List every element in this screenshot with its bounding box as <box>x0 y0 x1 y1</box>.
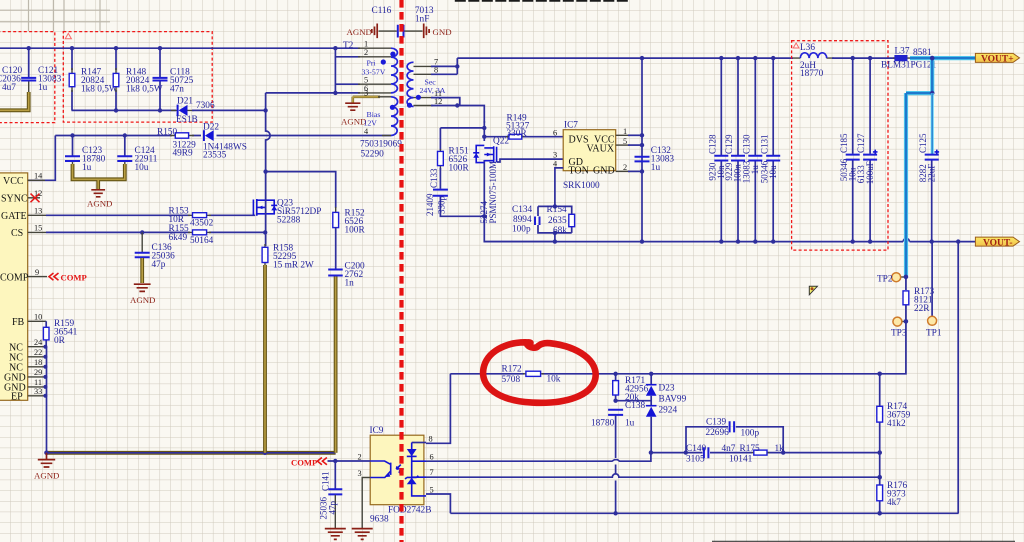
svg-text:C127: C127 <box>856 133 866 153</box>
ferrite bead L37 <box>881 47 937 71</box>
svg-text:68k: 68k <box>553 226 567 236</box>
svg-text:3: 3 <box>358 469 362 478</box>
svg-text:4u7: 4u7 <box>2 83 16 93</box>
pin SYNC 12 (no connect) <box>1 189 42 205</box>
ground AGND (bus) <box>34 453 59 481</box>
resistor R151 <box>438 128 485 174</box>
capacitor C128 <box>707 56 728 242</box>
primary winding coil <box>391 48 397 93</box>
capacitor C140 <box>686 444 736 465</box>
svg-text:D22: D22 <box>203 123 219 133</box>
svg-text:2: 2 <box>623 163 627 172</box>
resistor R159 <box>43 319 77 347</box>
black top edge line <box>455 0 629 2</box>
svg-text:BAV99: BAV99 <box>659 395 687 405</box>
svg-text:33: 33 <box>34 387 42 396</box>
node: D21 row joins drain vertical <box>263 108 267 112</box>
svg-text:COMP: COMP <box>61 273 87 283</box>
capacitor C118 <box>153 48 194 110</box>
pin 4 <box>382 135 391 137</box>
red dashed filter box (left, clipped) <box>0 32 55 123</box>
svg-text:330p: 330p <box>436 196 446 215</box>
wire: IC9 pin3 to ground <box>362 478 370 529</box>
svg-text:10u: 10u <box>135 163 149 173</box>
ground (C141) <box>325 529 346 540</box>
capacitor C123 <box>65 136 106 174</box>
svg-text:1k: 1k <box>775 444 785 454</box>
transistor Q23 SiR5712DP <box>253 199 321 226</box>
test point TP2 <box>877 273 908 285</box>
svg-text:41k2: 41k2 <box>887 419 906 429</box>
svg-text:SRK1000: SRK1000 <box>563 181 600 191</box>
svg-text:5: 5 <box>430 486 434 495</box>
resistor R158 <box>262 244 314 271</box>
svg-text:7306: 7306 <box>196 101 215 111</box>
svg-text:C138: C138 <box>625 401 645 411</box>
svg-text:100uF: 100uF <box>865 161 875 184</box>
svg-text:33-57V: 33-57V <box>362 68 386 77</box>
svg-text:52290: 52290 <box>361 150 385 160</box>
svg-text:23535: 23535 <box>203 151 227 161</box>
wire: pin bus down to AGND row <box>43 345 47 453</box>
svg-text:47p: 47p <box>328 501 338 515</box>
svg-text:21409: 21409 <box>425 193 435 216</box>
svg-text:SYNC: SYNC <box>1 194 28 205</box>
wire: primary top rail <box>0 47 360 49</box>
diode D22 1N4148WS <box>203 123 247 161</box>
svg-text:D23: D23 <box>659 384 675 394</box>
svg-text:6k49: 6k49 <box>169 233 188 243</box>
svg-text:3: 3 <box>553 151 557 160</box>
capacitor C138 <box>591 401 645 513</box>
svg-text:10: 10 <box>34 313 42 322</box>
svg-text:8994: 8994 <box>513 215 532 225</box>
svg-text:43502: 43502 <box>190 219 214 229</box>
capacitor C185 <box>839 58 860 242</box>
svg-text:Pri: Pri <box>367 59 377 68</box>
svg-text:C141: C141 <box>321 471 331 491</box>
port COMP (IC9) <box>291 458 370 468</box>
pin 6 <box>266 92 360 94</box>
wire: feedback row (R172 net) <box>450 373 879 375</box>
network C134 / R154 <box>512 204 575 241</box>
svg-text:VOUT+: VOUT+ <box>981 55 1014 65</box>
svg-text:D21: D21 <box>177 97 193 107</box>
svg-text:C129: C129 <box>724 134 734 154</box>
svg-text:FB: FB <box>12 317 25 328</box>
wire: rail hop over cyan <box>903 239 909 242</box>
capacitor C136 <box>135 232 175 283</box>
pins 7/8/11/12 <box>414 65 434 67</box>
capacitor C132 <box>635 146 675 173</box>
svg-text:R154: R154 <box>547 205 567 215</box>
svg-text:VAUX: VAUX <box>587 144 615 155</box>
resistor R150 <box>157 128 196 159</box>
port VOUT+ <box>975 53 1019 64</box>
resistor R171 <box>613 374 649 403</box>
pin 3 + AGND <box>353 97 380 103</box>
pins NC/GND/EP cluster <box>4 338 45 403</box>
ground GND (C116 right, sideways) <box>424 24 452 39</box>
svg-text:8: 8 <box>429 435 433 444</box>
svg-text:10141: 10141 <box>729 455 753 465</box>
capacitor C133 <box>425 168 485 216</box>
svg-text:R172: R172 <box>502 365 522 375</box>
svg-text:C185: C185 <box>839 133 849 153</box>
svg-text:24V, 3A: 24V, 3A <box>420 86 446 95</box>
svg-text:330R: 330R <box>507 129 528 139</box>
red dashed RC snubber box R147/R148/C118 <box>63 32 212 123</box>
svg-text:C134: C134 <box>512 205 532 215</box>
svg-text:100p: 100p <box>512 225 531 235</box>
svg-text:IC9: IC9 <box>370 426 384 436</box>
ground AGND (C136) <box>130 284 155 305</box>
resistor R155 <box>169 224 214 246</box>
node: bottom row junctions <box>114 108 118 112</box>
svg-text:18: 18 <box>34 358 42 367</box>
polarity dots primary <box>390 52 395 57</box>
resistor R172 <box>502 365 561 386</box>
capacitor C125 (polarized) <box>918 133 939 242</box>
pin CS 15 <box>11 224 46 240</box>
svg-text:18770: 18770 <box>800 69 824 79</box>
svg-text:4k7: 4k7 <box>887 498 901 508</box>
wire: VCC riser to bias row <box>28 136 56 181</box>
svg-text:AGND: AGND <box>347 27 372 37</box>
diode D21 ES1B <box>171 97 266 126</box>
svg-text:C133: C133 <box>429 168 439 188</box>
wire: right return vertical <box>957 242 959 514</box>
svg-text:2: 2 <box>364 48 368 57</box>
pin FB 10 <box>12 313 46 329</box>
svg-text:VCC: VCC <box>3 176 24 187</box>
svg-text:FOD2742B: FOD2742B <box>388 506 431 516</box>
svg-text:24: 24 <box>34 338 43 347</box>
resistor R152 <box>333 207 366 236</box>
svg-text:PSMN075-100M: PSMN075-100M <box>488 161 498 224</box>
svg-text:15: 15 <box>34 224 42 233</box>
wire: IC9 pin6 to row A (jog over C138 vertical) <box>426 453 651 462</box>
capacitor C120/C121 <box>0 48 62 93</box>
svg-text:TON: TON <box>569 166 589 177</box>
svg-text:4n7: 4n7 <box>722 444 736 454</box>
pin 5 <box>335 57 360 93</box>
svg-text:11: 11 <box>34 378 42 387</box>
svg-text:C139: C139 <box>706 418 726 428</box>
svg-text:DVS: DVS <box>569 135 589 146</box>
svg-text:1k8 0,5W: 1k8 0,5W <box>81 85 118 95</box>
wire: thin cyan to C125 <box>931 93 934 154</box>
wire: TON pin4 to R154/C134 <box>555 168 563 207</box>
resistor R175 <box>729 444 784 465</box>
svg-text:L37: L37 <box>895 47 910 57</box>
IC9 optocoupler FOD2742B <box>358 426 434 525</box>
bias winding coil <box>391 97 398 136</box>
port COMP (left) <box>49 273 87 283</box>
svg-text:6: 6 <box>553 129 557 138</box>
svg-text:GATE: GATE <box>1 211 27 222</box>
test point TP1 <box>926 242 942 339</box>
pin 1 <box>358 47 391 49</box>
node: top rail junctions <box>27 46 31 50</box>
svg-text:100p: 100p <box>741 429 760 439</box>
capacitor C130 <box>741 56 762 242</box>
warning marker triangle <box>809 286 817 295</box>
phototransistor inside <box>370 461 391 478</box>
wire: drain vertical from transformer to Q23/R158 (with hop over bias row) <box>266 93 271 246</box>
svg-text:15 mR 2W: 15 mR 2W <box>273 261 314 271</box>
red dashed box L36 filter <box>792 41 888 250</box>
capacitor C129 <box>724 56 745 242</box>
svg-text:5708: 5708 <box>502 375 521 385</box>
svg-text:47p: 47p <box>152 260 166 270</box>
pin VCC 14 <box>3 172 45 188</box>
svg-text:TP1: TP1 <box>926 329 942 339</box>
svg-text:1nF: 1nF <box>415 15 429 25</box>
wire: row A (C140/R175) <box>651 452 880 454</box>
svg-text:18780: 18780 <box>591 419 615 429</box>
svg-text:50164: 50164 <box>190 236 214 246</box>
svg-text:AGND: AGND <box>130 295 155 305</box>
isolation barrier (red dashed) <box>399 0 403 542</box>
wire: D23 mid tap to R171/C138 junction <box>616 400 652 402</box>
svg-text:VOUT-: VOUT- <box>983 238 1013 248</box>
svg-text:3105: 3105 <box>686 455 705 465</box>
svg-text:0R: 0R <box>54 336 66 346</box>
svg-text:47n: 47n <box>170 85 184 95</box>
svg-text:22696: 22696 <box>706 428 730 438</box>
svg-text:BLM31PG121: BLM31PG121 <box>881 61 937 71</box>
svg-text:9638: 9638 <box>370 515 389 525</box>
diode D23 BAV99 (dual) <box>646 374 687 453</box>
wire: rail L36 to L37 <box>832 57 895 59</box>
svg-text:TP3: TP3 <box>891 329 907 339</box>
wire: TP3 down to feedback row corner <box>880 321 906 373</box>
pin COMP 9 <box>0 268 47 284</box>
svg-text:GND: GND <box>433 27 452 37</box>
ground (IC9 pin3) <box>352 529 373 540</box>
svg-text:22uF: 22uF <box>926 164 936 183</box>
svg-text:C116: C116 <box>372 6 392 16</box>
svg-text:52288: 52288 <box>277 216 301 226</box>
capacitor C200 <box>328 227 365 289</box>
wire: olive AGND bus under C123/C124 <box>73 164 125 189</box>
svg-text:2924: 2924 <box>659 406 678 416</box>
wire: secondary top rail <box>457 57 793 59</box>
wire: R152 branch <box>266 172 336 208</box>
wire: CS row <box>46 231 265 233</box>
black bottom edge line <box>712 540 1015 542</box>
svg-text:22: 22 <box>34 348 42 357</box>
wire: IC9 pin7 row with hop <box>426 474 880 477</box>
svg-text:7: 7 <box>430 468 434 477</box>
secondary winding coil <box>407 62 413 106</box>
wire: olive+navy AGND row <box>44 451 335 456</box>
wire: olive AGND from C120 <box>0 92 29 110</box>
wire: bias row <box>55 135 391 137</box>
svg-text:1k8 0,5W: 1k8 0,5W <box>126 85 163 95</box>
svg-text:CS: CS <box>11 228 23 239</box>
svg-text:COMP: COMP <box>0 273 29 284</box>
wire: divider vertical x=879.7 <box>879 374 881 514</box>
resistor R174 <box>877 402 911 429</box>
svg-text:C125: C125 <box>918 133 928 153</box>
wire: IC9 pin5 to ground rail <box>426 494 450 513</box>
svg-text:9: 9 <box>35 268 39 277</box>
wire: olive below R158 <box>263 265 267 453</box>
svg-text:GND: GND <box>593 166 615 177</box>
svg-text:6: 6 <box>430 453 434 462</box>
svg-text:EP: EP <box>11 392 23 403</box>
IC IC7 SRK1000 <box>553 121 627 192</box>
svg-text:1u: 1u <box>82 163 92 173</box>
svg-text:12: 12 <box>434 97 442 106</box>
test point TP3 <box>891 317 908 338</box>
svg-text:29: 29 <box>34 368 42 377</box>
svg-text:1u: 1u <box>651 163 661 173</box>
svg-text:750319069: 750319069 <box>360 140 402 150</box>
svg-text:8: 8 <box>434 66 438 75</box>
ground AGND (C123/C124) <box>87 190 112 209</box>
svg-text:T2: T2 <box>343 41 354 51</box>
wire: box2 bottom row to D21 <box>72 109 177 111</box>
svg-text:12V: 12V <box>364 119 378 128</box>
transistor Q22 PSMN075-100M <box>473 137 563 224</box>
svg-text:14: 14 <box>34 172 43 181</box>
wire: VOUT- ground rail <box>484 241 958 243</box>
svg-text:C131: C131 <box>759 134 769 154</box>
wire: snubber/drain vertical x=484.3 <box>484 121 555 242</box>
svg-text:AGND: AGND <box>87 199 112 209</box>
pin GATE 13 <box>1 207 46 223</box>
IC U1 (left controller, clipped) <box>0 173 28 400</box>
svg-text:10k: 10k <box>547 375 561 385</box>
svg-text:C130: C130 <box>741 134 751 154</box>
capacitor C131 <box>759 56 780 242</box>
network C139 (loop) <box>686 418 783 453</box>
wire: GATE row <box>46 214 255 216</box>
svg-text:R150: R150 <box>157 128 177 138</box>
capacitor C124 <box>117 136 157 174</box>
wire: olive below C200 <box>334 277 338 453</box>
svg-text:13: 13 <box>34 207 42 216</box>
transformer T2 <box>266 40 485 160</box>
IC9 pin8 wire up to feedback row <box>426 374 450 444</box>
capacitor C141 <box>319 461 343 528</box>
red marker circle around R172 <box>483 342 596 402</box>
svg-text:3: 3 <box>364 88 368 97</box>
ground AGND (C116 left, sideways) <box>347 24 378 39</box>
svg-text:TP2: TP2 <box>877 275 893 285</box>
resistor R148 <box>113 48 163 110</box>
svg-text:100R: 100R <box>449 164 470 174</box>
wire: bottom ground rail <box>450 512 958 514</box>
svg-text:ES1B: ES1B <box>176 115 198 125</box>
resistor R149 <box>484 114 563 140</box>
svg-text:AGND: AGND <box>34 471 59 481</box>
capacitor C116 (Y-cap across barrier) <box>372 6 434 38</box>
svg-text:1u: 1u <box>625 419 635 429</box>
pin 2 (wire steps up to pin1 junction) <box>335 48 360 57</box>
port VOUT- <box>958 237 1019 248</box>
svg-text:COMP: COMP <box>291 458 317 468</box>
svg-text:1u: 1u <box>38 83 48 93</box>
resistor R147 <box>69 48 118 110</box>
output diodes inside <box>412 442 426 444</box>
svg-text:1n: 1n <box>345 279 355 289</box>
svg-text:10u: 10u <box>768 165 778 179</box>
svg-text:C128: C128 <box>707 134 717 154</box>
wire: cyan VOUT+ <box>906 56 975 276</box>
capacitor C127 (polarized) <box>856 58 877 242</box>
resistor R176 <box>877 481 908 508</box>
inductor L36 <box>793 43 834 79</box>
svg-text:R175: R175 <box>740 444 760 454</box>
svg-text:IC7: IC7 <box>564 121 578 131</box>
svg-text:49R9: 49R9 <box>173 149 193 159</box>
wire: IC7 right pins to C132 vertical <box>616 56 645 242</box>
resistor R173 <box>903 277 934 322</box>
svg-text:100R: 100R <box>345 226 366 236</box>
svg-text:L36: L36 <box>800 43 815 53</box>
resistor R153 <box>169 207 214 229</box>
svg-text:2635: 2635 <box>548 216 567 226</box>
svg-text:22R: 22R <box>914 304 930 314</box>
svg-text:C140: C140 <box>686 444 706 454</box>
